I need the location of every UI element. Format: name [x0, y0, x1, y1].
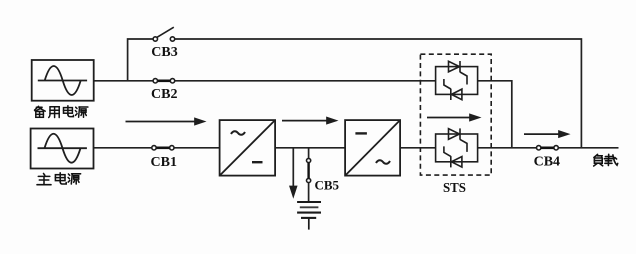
- svg-text:CB2: CB2: [151, 87, 177, 102]
- svg-text:CB5: CB5: [315, 178, 340, 193]
- svg-text:CB3: CB3: [151, 45, 177, 60]
- svg-text:STS: STS: [443, 181, 466, 196]
- svg-text:CB4: CB4: [534, 155, 560, 170]
- svg-text:CB1: CB1: [151, 155, 177, 170]
